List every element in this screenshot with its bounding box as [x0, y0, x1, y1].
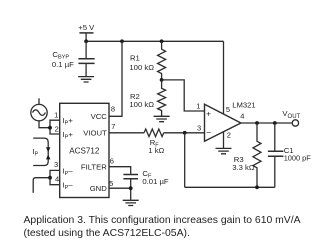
wire CBYP to ground	[85, 64, 87, 77]
node output C1 junction	[273, 121, 277, 125]
svg-text:GND: GND	[90, 184, 108, 193]
svg-text:4: 4	[240, 112, 244, 121]
node junction on rail at CBYP	[84, 39, 88, 43]
wire op-amp V+ pin 5	[223, 41, 225, 114]
svg-text:FILTER: FILTER	[81, 163, 107, 172]
node R3 bottom junction	[255, 185, 259, 189]
svg-text:2: 2	[55, 124, 59, 133]
wire CBYP branch	[85, 41, 87, 58]
svg-text:1 kΩ: 1 kΩ	[148, 146, 164, 155]
node inverting input junction	[183, 131, 187, 135]
svg-text:2: 2	[227, 130, 231, 139]
svg-text:1: 1	[54, 110, 58, 119]
+5 V supply symbol	[78, 23, 95, 41]
wire IP- pin tie	[50, 170, 60, 184]
svg-text:Application 3. This configurat: Application 3. This configuration increa…	[24, 215, 301, 226]
svg-text:4: 4	[55, 175, 59, 184]
svg-text:−: −	[206, 127, 211, 137]
ground under R2	[154, 116, 170, 121]
svg-text:VCC: VCC	[91, 112, 108, 121]
svg-text:+5 V: +5 V	[78, 23, 95, 32]
node junction on rail at R1	[160, 39, 164, 43]
svg-text:R1: R1	[130, 54, 140, 63]
wire VCC pin 8 to rail	[109, 41, 122, 116]
node GND junction	[129, 186, 133, 190]
node R1/R2 junction	[160, 78, 164, 82]
svg-text:LM321: LM321	[232, 100, 256, 109]
svg-text:5: 5	[109, 179, 113, 188]
svg-text:3: 3	[54, 160, 58, 169]
terminal VOUT	[282, 109, 300, 126]
wire GND pin 5	[109, 188, 131, 200]
wire feedback bottom rail	[185, 186, 275, 188]
svg-text:5: 5	[226, 105, 230, 114]
svg-text:+: +	[206, 108, 211, 118]
svg-text:VIOUT: VIOUT	[83, 129, 107, 138]
wire IP+ pin tie	[50, 120, 60, 134]
svg-text:0.01 µF: 0.01 µF	[142, 177, 169, 186]
svg-text:IP+: IP+	[63, 116, 74, 127]
svg-text:100 kΩ: 100 kΩ	[129, 63, 154, 72]
AC current source	[31, 98, 50, 127]
wire divider to op-amp + input	[162, 80, 205, 111]
node IP- tie junction	[48, 176, 52, 180]
capacitor CBYP 0.1 uF	[52, 50, 95, 69]
svg-text:7: 7	[111, 122, 115, 131]
node junction on rail at VCC drop	[120, 39, 124, 43]
svg-text:3: 3	[197, 123, 201, 132]
ground under CBYP	[78, 77, 94, 82]
capacitor C1 1000 pF	[268, 123, 311, 187]
resistor R3 3.3 kOhm	[232, 123, 261, 187]
svg-text:6: 6	[110, 157, 114, 166]
svg-text:IP–: IP–	[63, 181, 74, 192]
wire output	[241, 122, 292, 124]
capacitor CF 0.01 uF	[123, 169, 169, 186]
wire +5V rail	[86, 40, 223, 42]
svg-text:0.1 µF: 0.1 µF	[52, 60, 74, 69]
resistor R1 100 kOhm	[129, 41, 165, 80]
resistor R2 100 kOhm	[129, 80, 165, 116]
node output R3 junction	[255, 121, 259, 125]
svg-text:100 kΩ: 100 kΩ	[129, 100, 154, 109]
svg-text:3.3 kΩ: 3.3 kΩ	[232, 163, 255, 172]
svg-text:1000 pF: 1000 pF	[284, 154, 312, 163]
wire FILTER pin 6 to CF	[109, 167, 131, 174]
IC ACS712	[60, 103, 109, 197]
ground under GND pin	[123, 200, 139, 205]
wire VIOUT to RF	[109, 132, 144, 134]
op-amp U1 LM321	[205, 100, 256, 141]
wire IP- return stub	[33, 178, 50, 193]
svg-text:IP+: IP+	[63, 130, 74, 141]
ground under op-amp	[216, 148, 232, 153]
svg-text:8: 8	[111, 105, 115, 114]
wire RF to op-amp inverting input	[164, 132, 205, 134]
resistor RF 1 kOhm	[144, 129, 164, 155]
svg-text:1: 1	[196, 101, 200, 110]
svg-text:IP–: IP–	[63, 166, 74, 177]
Ip current direction indicator	[32, 138, 50, 165]
svg-text:ACS712: ACS712	[69, 146, 100, 155]
wire op-amp V- pin 2 to ground	[223, 132, 225, 149]
node IP+ tie junction	[48, 126, 52, 130]
svg-text:(tested using the ACS712ELC-05: (tested using the ACS712ELC-05A).	[24, 228, 190, 239]
wire feedback vertical	[184, 133, 186, 188]
wire CF to GND stub	[130, 179, 132, 188]
